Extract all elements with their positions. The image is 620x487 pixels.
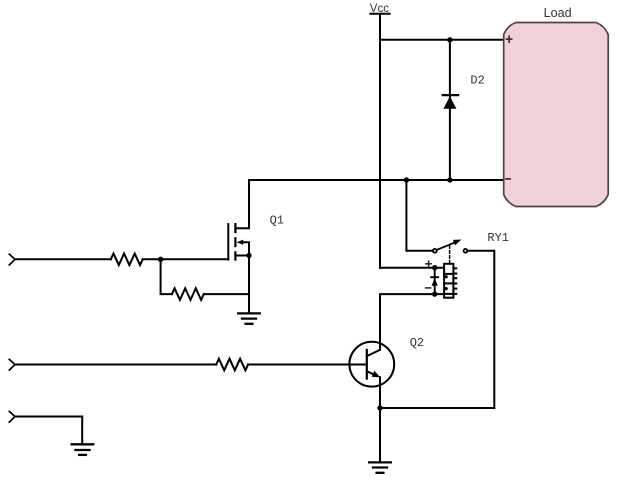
wire input2 to R3 [15, 364, 216, 366]
wire R3 to Q2 base [248, 364, 367, 366]
dashed actuator link RY1 [449, 246, 451, 263]
ground below Q1 [238, 313, 260, 323]
node junction emitter/relay return [377, 405, 382, 410]
ground input3 [72, 444, 94, 455]
node junction coil-/diode [432, 291, 437, 296]
svg-text:D2: D2 [470, 74, 484, 88]
pin - of Load [506, 178, 510, 180]
resistor R3 [216, 359, 248, 371]
wire relay contact to right vertical [467, 251, 494, 408]
wire top rail Vcc to Load+ [380, 39, 504, 41]
wire input1 to R1 [15, 258, 111, 260]
connector input 3 [9, 411, 15, 422]
svg-text:Q2: Q2 [410, 336, 424, 350]
resistor R1 [111, 253, 143, 265]
wire Q2 emitter down to ground [379, 377, 381, 461]
wire Vcc vertical to coil+ [379, 15, 381, 268]
node junction lower rail / relay switch [404, 177, 409, 182]
wire R1 to Q1 gate [143, 258, 229, 260]
transistor Q2 (NPN) [349, 336, 424, 387]
node junction lower rail / D2 anode [447, 177, 452, 182]
connector input 2 [9, 359, 15, 370]
Load block [504, 6, 609, 207]
wire D2 branch vertical [449, 40, 451, 180]
ground below Q2 [369, 462, 391, 472]
label - coil [426, 287, 431, 289]
connector input 1 [9, 254, 15, 265]
wire junction down to R2 [161, 259, 172, 294]
relay RY1 switch [433, 231, 509, 253]
wire emitter junction to relay right [380, 407, 494, 409]
wire input3 to ground [15, 417, 82, 444]
svg-text:RY1: RY1 [487, 231, 509, 245]
diode flyback across coil [431, 268, 438, 294]
resistor R2 [172, 288, 204, 300]
diode D2 [443, 74, 485, 109]
svg-text:Vcc: Vcc [370, 3, 389, 15]
node junction gate/R2 [158, 257, 163, 262]
node junction coil+/diode [432, 265, 437, 270]
wire Q1 source to ground [248, 256, 250, 313]
wire R2 to Q1 source leg [204, 293, 249, 295]
relay coil RY1 [444, 264, 456, 298]
svg-text:Load: Load [544, 6, 572, 20]
node junction Q1 source [246, 253, 251, 258]
svg-text:Q1: Q1 [270, 213, 284, 227]
wire lower rail Q1 drain to Load- [249, 179, 504, 181]
wire coil+ from Vcc line [380, 267, 444, 269]
pin + of Load [507, 36, 512, 42]
wire coil- to Q2 collector [380, 294, 444, 350]
Vcc symbol [370, 3, 390, 15]
node junction top rail / D2 [447, 37, 452, 42]
wire rail junction down to relay switch [406, 180, 432, 251]
transistor Q1 (NMOS) [228, 180, 284, 260]
label + coil [426, 261, 431, 266]
